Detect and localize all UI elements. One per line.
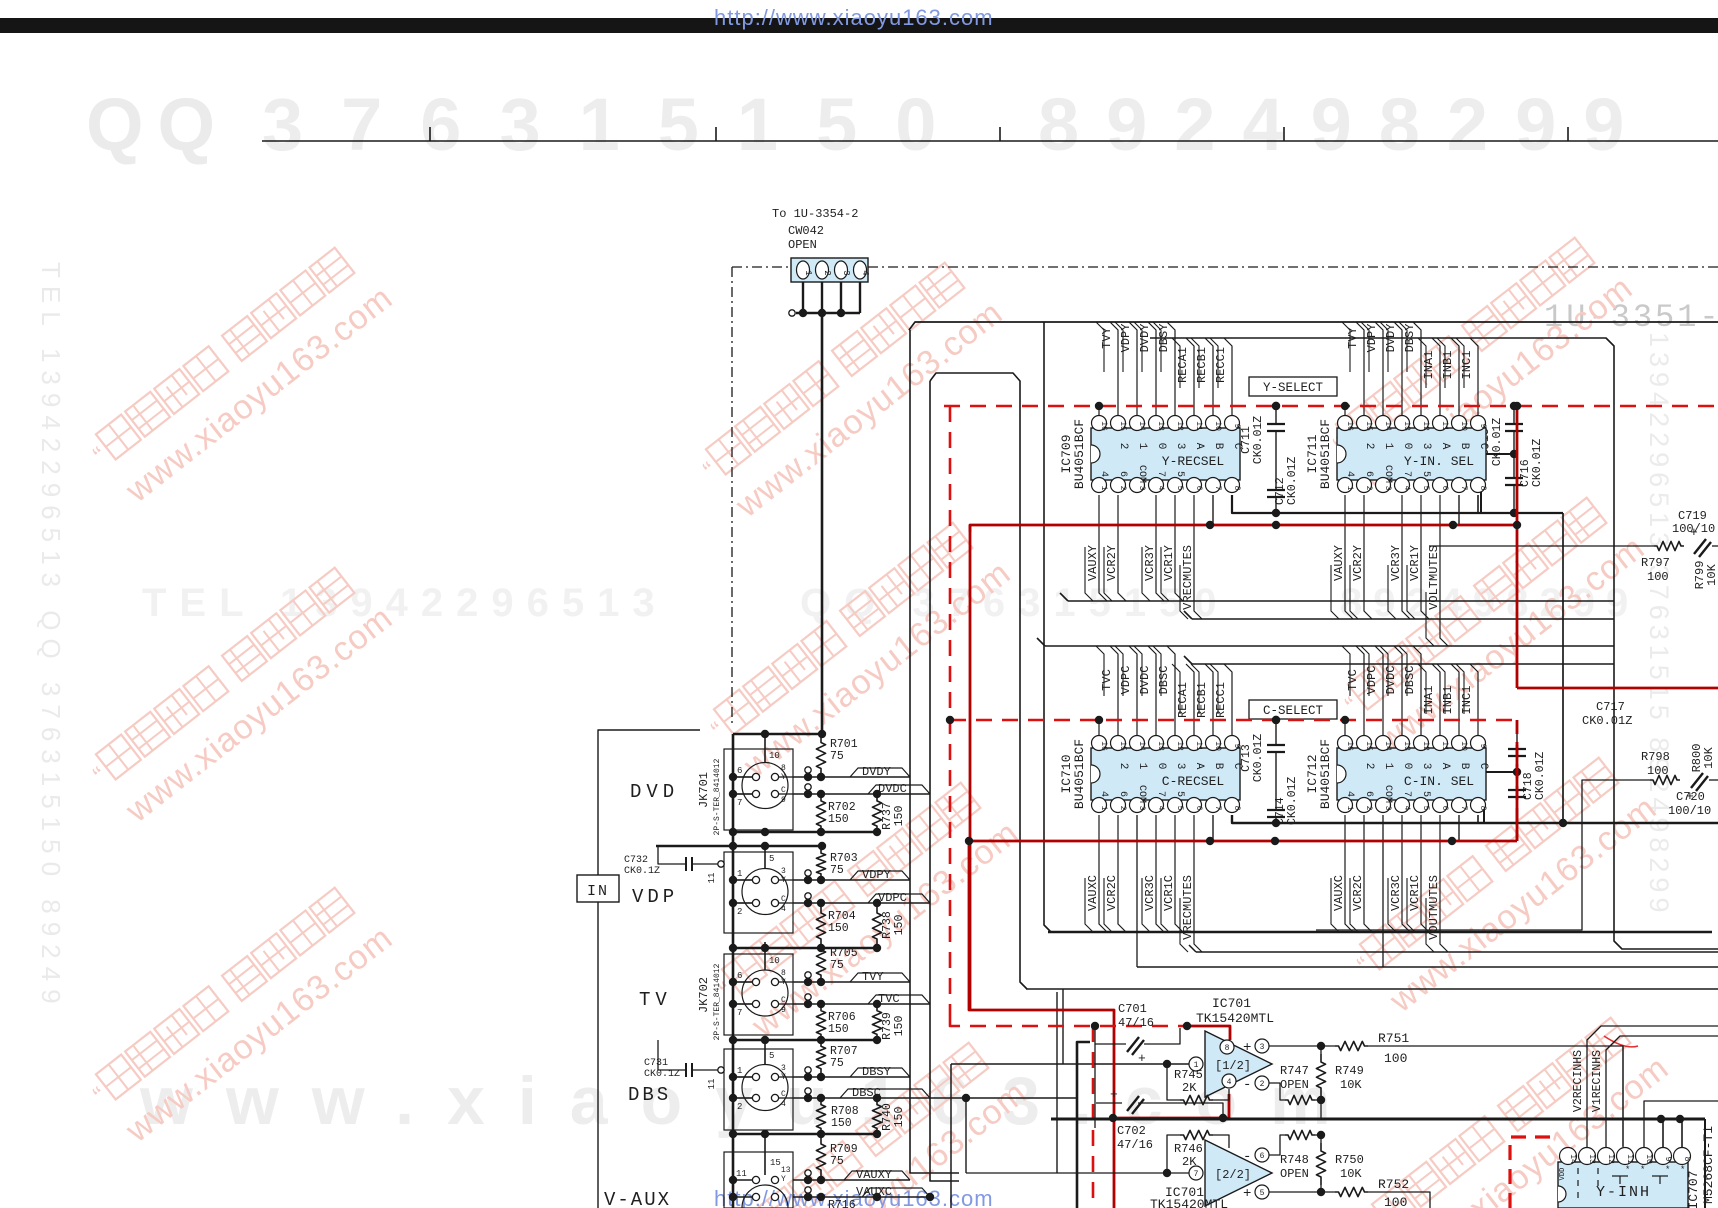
capacitor C714 [1267, 809, 1285, 811]
svg-text:13: 13 [1587, 1154, 1596, 1164]
svg-text:[2/2]: [2/2] [1215, 1168, 1251, 1182]
svg-text:VAUXY: VAUXY [1086, 545, 1100, 581]
svg-text:C-IN. SEL: C-IN. SEL [1404, 774, 1474, 789]
wire ground bus vertical [732, 734, 735, 1208]
svg-text:DVDY: DVDY [1384, 324, 1398, 353]
svg-text:15: 15 [1364, 421, 1373, 431]
wire thick low bus [1051, 1118, 1705, 1121]
svg-text:DBS: DBS [628, 1084, 671, 1106]
svg-text:3: 3 [1383, 486, 1392, 491]
svg-text:7: 7 [1213, 486, 1222, 491]
wire IC710 pin8 bus [1232, 815, 1718, 823]
svg-text:7: 7 [737, 798, 742, 808]
svg-text:TV: TV [639, 989, 672, 1011]
op-amp IC712 [1305, 736, 1489, 813]
resistor R708 [816, 1100, 825, 1133]
svg-text:VAUXC: VAUXC [856, 1185, 892, 1199]
svg-text:3: 3 [841, 270, 851, 275]
svg-text:9: 9 [1478, 424, 1487, 429]
wire R751 row [1269, 1045, 1335, 1047]
svg-text:VDPC: VDPC [1365, 666, 1379, 695]
wire VRECMUTES [1194, 815, 1202, 952]
wire opamp feed [951, 1063, 1189, 1065]
wire VRECMUTES [1194, 495, 1202, 619]
svg-text:COM: COM [1382, 465, 1393, 483]
svg-text:1: 1 [1382, 443, 1394, 450]
resistor R703 [816, 849, 825, 878]
svg-text:Y: Y [781, 1073, 786, 1082]
svg-text:OPEN: OPEN [788, 238, 817, 252]
capacitor C711 [1275, 406, 1277, 424]
wire IC709 pin8 bus [1232, 495, 1563, 513]
svg-text:B: B [1458, 763, 1470, 770]
svg-text:10: 10 [1644, 1154, 1653, 1164]
svg-text:8: 8 [1232, 806, 1241, 811]
wire R751 out [1368, 1046, 1623, 1146]
svg-text:5: 5 [1175, 486, 1184, 491]
wire C out L [1316, 780, 1650, 930]
resistor R738 [872, 905, 881, 947]
svg-text:6: 6 [737, 971, 742, 981]
svg-text:TEL 13942296513: TEL 13942296513 [142, 581, 668, 625]
wire DBSY [1413, 322, 1421, 420]
wire INC1 [1470, 338, 1478, 420]
svg-text:DVDY: DVDY [862, 765, 891, 779]
open terminal pin 11 [718, 861, 724, 867]
svg-text:INB1: INB1 [1441, 351, 1455, 380]
junction C715 [1510, 402, 1518, 410]
svg-text:C: C [1231, 443, 1243, 450]
svg-text:4: 4 [1156, 806, 1165, 811]
svg-text:11: 11 [736, 1169, 747, 1179]
svg-text:*: * [1625, 1165, 1630, 1175]
wire RECC1 [1224, 338, 1232, 420]
svg-text:0: 0 [1155, 763, 1167, 770]
svg-text:TK15420MTL: TK15420MTL [1196, 1011, 1274, 1026]
resistor R705 [816, 945, 825, 980]
svg-text:15: 15 [1364, 741, 1373, 751]
svg-text:*: * [1680, 1165, 1685, 1175]
svg-text:16: 16 [1345, 741, 1354, 751]
svg-text:C731: C731 [644, 1058, 668, 1069]
op-amp IC710 [1059, 736, 1243, 813]
svg-text:Y: Y [781, 978, 786, 987]
svg-text:C: C [781, 1090, 786, 1099]
svg-text:RECC1: RECC1 [1214, 682, 1228, 718]
wire DVDY [1148, 322, 1156, 420]
box C-SELECT [1249, 700, 1337, 719]
svg-text:11: 11 [707, 1079, 717, 1090]
svg-text:14: 14 [1137, 741, 1146, 751]
svg-text:3: 3 [781, 1064, 786, 1073]
svg-text:13: 13 [1402, 741, 1411, 751]
svg-text:9: 9 [1478, 744, 1487, 749]
svg-text:R749: R749 [1335, 1064, 1364, 1078]
svg-text:10: 10 [1459, 421, 1468, 431]
svg-text:RECC1: RECC1 [1214, 347, 1228, 383]
svg-text:4: 4 [1227, 1078, 1232, 1087]
svg-text:V-AUX: V-AUX [604, 1189, 671, 1208]
svg-text:VCR2C: VCR2C [1105, 875, 1119, 911]
svg-text:+: + [1690, 525, 1698, 540]
wire bus x1044 [1044, 322, 1051, 932]
red dashed C vertical lower [950, 1020, 1187, 1026]
junction low bus [1657, 1115, 1665, 1123]
connector V-AUX jack [724, 1152, 793, 1208]
wire VDPC [1129, 646, 1137, 740]
svg-text:8: 8 [781, 764, 786, 773]
svg-text:VDPC: VDPC [878, 891, 907, 905]
capacitor C719 [1694, 539, 1706, 554]
svg-text:6: 6 [1194, 486, 1203, 491]
svg-text:C-RECSEL: C-RECSEL [1162, 774, 1224, 789]
node VDPC [805, 893, 811, 899]
svg-text:VAUXC: VAUXC [1332, 875, 1346, 911]
wire IC712 pin16 [1344, 720, 1346, 740]
svg-text:7: 7 [1401, 471, 1412, 477]
svg-text:CK0.01Z: CK0.01Z [1534, 752, 1547, 800]
wire bus x930 [930, 381, 959, 1181]
wire TVC [793, 1003, 930, 1005]
svg-text:1: 1 [803, 270, 813, 275]
op-amp IC701 1/2 [1205, 1031, 1272, 1097]
wire thick bus x1077 [1077, 1042, 1090, 1208]
svg-text:C717: C717 [1596, 700, 1625, 714]
svg-text:A: A [1439, 443, 1451, 450]
svg-text:3: 3 [1260, 1043, 1265, 1052]
wire C bottom bus 3 [1137, 966, 1718, 968]
svg-text:75: 75 [830, 959, 844, 972]
wire RECB1 [1205, 664, 1213, 740]
svg-text:Y-SELECT: Y-SELECT [1263, 381, 1324, 395]
wire RECB1 [1205, 338, 1213, 420]
svg-text:16: 16 [1345, 421, 1354, 431]
wire VCR2C [1118, 815, 1126, 932]
svg-text:DVDY: DVDY [1138, 324, 1152, 353]
svg-text:1: 1 [737, 869, 742, 879]
svg-text:10: 10 [1213, 741, 1222, 751]
svg-text:INC1: INC1 [1460, 351, 1474, 380]
capacitor C716 [1505, 477, 1523, 479]
wire VCR3C [1402, 815, 1410, 932]
svg-text:C732: C732 [624, 855, 648, 866]
wire ground strap top [733, 733, 822, 736]
wire bus x951 [950, 1064, 952, 1208]
svg-text:11: 11 [1194, 421, 1203, 431]
wire bus top second [930, 373, 1027, 989]
svg-text:-: - [1243, 1077, 1251, 1093]
svg-text:DBSY: DBSY [1403, 324, 1417, 353]
svg-text:R751: R751 [1378, 1031, 1409, 1046]
svg-text:VCR1C: VCR1C [1162, 875, 1176, 911]
svg-text:Y-INH: Y-INH [1596, 1184, 1651, 1201]
svg-text:2: 2 [1364, 806, 1373, 811]
svg-text:7: 7 [1401, 791, 1412, 797]
wire ground strap [733, 947, 877, 950]
svg-text:11: 11 [1625, 1154, 1634, 1164]
svg-text:0: 0 [1401, 763, 1413, 770]
svg-text:5: 5 [1421, 806, 1430, 811]
ruler line with ticks [262, 127, 1718, 141]
svg-text:75: 75 [830, 1057, 844, 1070]
svg-text:[1/2]: [1/2] [1215, 1059, 1251, 1073]
wire ground strap [733, 831, 877, 834]
svg-text:7: 7 [737, 1008, 742, 1018]
svg-text:0: 0 [1155, 443, 1167, 450]
svg-text:VRECMUTES: VRECMUTES [1181, 545, 1195, 610]
svg-text:12: 12 [1175, 741, 1184, 751]
svg-text:CK0.01Z: CK0.01Z [1286, 777, 1299, 825]
wire INA1 [1432, 664, 1440, 740]
wire ground strap [656, 845, 822, 848]
svg-text:A: A [1193, 443, 1205, 450]
resistor R751 [1335, 1041, 1368, 1050]
svg-text:R747: R747 [1280, 1064, 1309, 1078]
wire VCR3C [1156, 815, 1164, 932]
resistor R704 [816, 905, 825, 947]
svg-text:BU4051BCF: BU4051BCF [1318, 419, 1333, 489]
svg-text:TVY: TVY [1346, 327, 1360, 349]
red solid Y line [970, 525, 1517, 532]
svg-text:12: 12 [1421, 421, 1430, 431]
resistor R702 [816, 796, 825, 831]
svg-text:5: 5 [1420, 471, 1431, 477]
svg-text:150: 150 [828, 813, 849, 826]
svg-text:2P-S-TER_8414012: 2P-S-TER_8414012 [713, 758, 722, 835]
svg-text:150: 150 [828, 922, 849, 935]
svg-text:V2RECINHS: V2RECINHS [1572, 1050, 1585, 1112]
svg-text:16: 16 [1099, 421, 1108, 431]
svg-text:9: 9 [781, 1006, 786, 1015]
svg-text:5: 5 [1175, 806, 1184, 811]
resistor R797 [1654, 541, 1684, 550]
svg-text:OPEN: OPEN [1280, 1167, 1309, 1181]
svg-text:5: 5 [1260, 1189, 1265, 1198]
pin 8 [1220, 1040, 1234, 1054]
svg-text:75: 75 [830, 864, 844, 877]
svg-text:CK0.01Z: CK0.01Z [1252, 734, 1265, 782]
svg-text:RECB1: RECB1 [1195, 347, 1209, 383]
svg-text:10: 10 [769, 751, 780, 761]
svg-text:http://www.xiaoyu163.com: http://www.xiaoyu163.com [714, 5, 994, 30]
svg-text:R750: R750 [1335, 1153, 1364, 1167]
wire VDPY [793, 879, 910, 881]
svg-text:VAUXY: VAUXY [1332, 545, 1346, 581]
svg-text:DVDC: DVDC [1138, 666, 1152, 695]
svg-text:1: 1 [737, 1066, 742, 1076]
wire pin8 feed [1681, 1119, 1683, 1147]
node VDPY [805, 870, 811, 876]
svg-text:150: 150 [893, 1107, 906, 1128]
svg-text:2: 2 [1363, 763, 1375, 770]
wire TVC flag [868, 995, 930, 1004]
svg-text:2K: 2K [1182, 1155, 1197, 1169]
svg-text:15: 15 [770, 1158, 781, 1168]
wire jack left pins [733, 879, 752, 881]
svg-text:150: 150 [893, 1016, 906, 1037]
wire bus x910 [910, 330, 959, 1173]
wire VAUXY [1345, 495, 1353, 619]
wire VOUTMUTES [1440, 815, 1448, 952]
svg-text:3: 3 [1137, 806, 1146, 811]
svg-text:QQ: QQ [86, 83, 229, 166]
svg-text:JK702: JK702 [697, 977, 711, 1013]
svg-text:Y-IN. SEL: Y-IN. SEL [1404, 454, 1474, 469]
wire VOLTMUTES [1440, 495, 1448, 646]
svg-text:VCR3Y: VCR3Y [1143, 545, 1157, 581]
svg-text:DBSC: DBSC [852, 1086, 881, 1100]
svg-text:-: - [1243, 1149, 1251, 1165]
svg-text:4: 4 [781, 1100, 786, 1109]
svg-text:VDPY: VDPY [1365, 324, 1379, 353]
svg-text:100: 100 [1647, 570, 1669, 584]
svg-text:C719: C719 [1678, 509, 1707, 523]
resistor R752 [1335, 1187, 1368, 1196]
svg-text:3: 3 [1420, 763, 1432, 770]
svg-text:10: 10 [1459, 741, 1468, 751]
svg-text:TVC: TVC [1100, 669, 1114, 691]
svg-text:DBSC: DBSC [1403, 666, 1417, 695]
svg-text:TVC: TVC [878, 992, 900, 1006]
svg-text:VDD: VDD [1559, 1168, 1567, 1181]
wire TVY [793, 981, 910, 983]
svg-text:376315150: 376315150 [262, 83, 974, 166]
wire VCR2Y [1364, 495, 1372, 619]
svg-text:CK0.01Z: CK0.01Z [1286, 457, 1299, 505]
svg-text:VCR3Y: VCR3Y [1389, 545, 1403, 581]
svg-text:VCR1C: VCR1C [1408, 875, 1422, 911]
svg-text:IN: IN [587, 883, 609, 900]
svg-text:BU4051BCF: BU4051BCF [1072, 419, 1087, 489]
capacitor C715 [1513, 406, 1515, 424]
svg-text:8: 8 [781, 969, 786, 978]
wire C716 elbow [1481, 454, 1514, 513]
svg-text:R745: R745 [1174, 1068, 1203, 1082]
junction dots red low [1091, 1022, 1099, 1030]
svg-text:6: 6 [1440, 486, 1449, 491]
wire jack left pins [733, 776, 752, 778]
svg-text:10: 10 [769, 956, 780, 966]
wire bus x1063 [1062, 989, 1064, 1064]
svg-text:JK701: JK701 [697, 772, 711, 808]
svg-text:VOLTMUTES: VOLTMUTES [1427, 545, 1441, 610]
svg-text:VAUXY: VAUXY [856, 1168, 892, 1182]
svg-text:6: 6 [1363, 791, 1374, 797]
svg-text:10: 10 [1213, 421, 1222, 431]
wire bus x1057 [1056, 992, 1058, 1173]
capacitor C720 [1691, 773, 1703, 788]
svg-text:7: 7 [1194, 1170, 1199, 1179]
wire VAUXC [793, 1196, 930, 1198]
svg-text:*: * [1665, 1165, 1670, 1175]
svg-text:75: 75 [830, 750, 844, 763]
svg-text:TEL 13942296513 QQ 376315150 8: TEL 13942296513 QQ 376315150 89249 [36, 262, 66, 1012]
watermark red text [85, 229, 1676, 1208]
wire VCR3Y [1402, 495, 1410, 619]
svg-text:VCR1Y: VCR1Y [1408, 545, 1422, 581]
svg-text:7: 7 [1459, 806, 1468, 811]
svg-text:B: B [1458, 443, 1470, 450]
op-amp IC709 [1059, 416, 1243, 493]
wire com drop IC710 [1136, 815, 1138, 967]
svg-text:C: C [781, 786, 786, 795]
svg-text:5: 5 [1174, 791, 1185, 797]
svg-text:150: 150 [893, 915, 906, 936]
svg-text:VCR1Y: VCR1Y [1162, 545, 1176, 581]
red dashed Y-select line [944, 405, 1718, 408]
svg-text:1: 1 [1382, 763, 1394, 770]
wire VAUXC [1099, 815, 1107, 932]
svg-text:9: 9 [1232, 744, 1241, 749]
wire RECC1 [1224, 664, 1232, 740]
red dashed opamp vertical [1092, 1026, 1095, 1208]
svg-text:2: 2 [822, 270, 832, 275]
wire DVDC [1148, 646, 1156, 740]
wire C718 elbow [1484, 772, 1517, 823]
svg-text:C: C [781, 996, 786, 1005]
svg-text:INA1: INA1 [1422, 351, 1436, 380]
red solid C down [969, 841, 1114, 1208]
svg-text:15: 15 [1118, 741, 1127, 751]
svg-text:8: 8 [1225, 1044, 1230, 1053]
wire DVDY [1394, 322, 1402, 420]
svg-text:V1RECINHS: V1RECINHS [1591, 1050, 1604, 1112]
svg-text:VDPC: VDPC [1119, 666, 1133, 695]
svg-text:9: 9 [1232, 424, 1241, 429]
wire VCR3Y [1156, 495, 1164, 601]
svg-text:CK0.1Z: CK0.1Z [624, 866, 660, 877]
svg-text:6: 6 [737, 766, 742, 776]
wire jack left pins [733, 981, 752, 983]
svg-text:3: 3 [1174, 763, 1186, 770]
wire RECA1 [1186, 338, 1194, 420]
svg-text:DBSC: DBSC [1157, 666, 1171, 695]
svg-text:1: 1 [1345, 806, 1354, 811]
junction dots red C [946, 716, 954, 724]
svg-text:5: 5 [1421, 486, 1430, 491]
svg-text:4: 4 [1156, 486, 1165, 491]
svg-text:8: 8 [1682, 1157, 1691, 1162]
svg-text:R798: R798 [1641, 750, 1670, 764]
svg-text:BU4051BCF: BU4051BCF [1318, 739, 1333, 809]
junction C713 [1272, 716, 1280, 724]
svg-text:5: 5 [1174, 471, 1185, 477]
svg-text:A: A [1193, 763, 1205, 770]
resistor R740 [872, 1100, 881, 1133]
svg-text:R716: R716 [828, 1199, 856, 1208]
svg-text:47/16: 47/16 [1117, 1138, 1153, 1152]
wire TVY [1356, 322, 1364, 420]
wire VCR2C [1364, 815, 1372, 932]
wire c701 col [1094, 1026, 1096, 1128]
svg-text:TVC: TVC [1346, 669, 1360, 691]
svg-text:100: 100 [1384, 1051, 1407, 1066]
svg-text:16: 16 [1099, 741, 1108, 751]
wire pin10 feed [1644, 1101, 1718, 1147]
svg-text:VDPY: VDPY [862, 868, 891, 882]
svg-text:13: 13 [1402, 421, 1411, 431]
svg-text:C701: C701 [1118, 1002, 1147, 1016]
wire IC711 pin16 [1344, 406, 1346, 420]
op-amp IC707 Y-INH [1558, 1148, 1691, 1208]
svg-text:C: C [781, 895, 786, 904]
svg-text:DBSY: DBSY [1157, 324, 1171, 353]
wire Y-C link vertical [1562, 513, 1564, 823]
svg-text:Y: Y [781, 773, 786, 782]
svg-text:3: 3 [781, 867, 786, 876]
wire C label bus 1 [1045, 645, 1614, 647]
node DBSC [805, 1088, 811, 1094]
